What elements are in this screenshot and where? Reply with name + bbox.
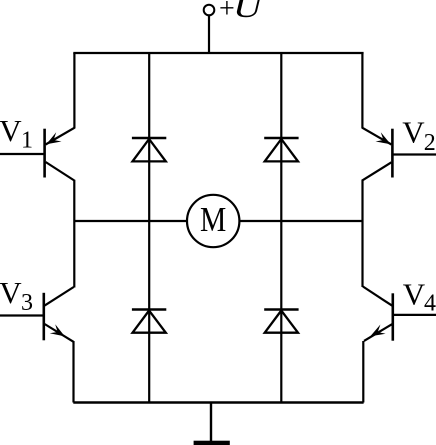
diode VD2 (top-right) (264, 138, 298, 161)
supply terminal circle (204, 5, 215, 16)
label V2 (402, 115, 436, 156)
svg-text:V: V (0, 275, 22, 310)
svg-text:V: V (0, 113, 22, 148)
label V1 (0, 113, 33, 154)
wire: bottom rail (73, 401, 363, 404)
svg-text:1: 1 (21, 128, 33, 154)
svg-text:3: 3 (21, 290, 33, 316)
wire: right inner vertical (diode branch) (280, 53, 282, 403)
wire: middle rail left of motor (74, 220, 188, 222)
diode VD3 (bottom-left) (132, 310, 166, 333)
transistor V3 (NPN, bottom-left) (0, 287, 74, 342)
label V3 (0, 275, 33, 316)
diode VD1 (top-left) (132, 138, 166, 161)
svg-text:V: V (403, 277, 426, 312)
svg-text:2: 2 (424, 130, 436, 156)
label V4 (403, 277, 436, 317)
wire: middle rail right of motor (239, 220, 363, 222)
ground (194, 441, 230, 445)
wire: ground stub (210, 403, 212, 442)
transistor V2 (PNP, top-right) (362, 128, 436, 181)
wire: left outer vertical, V3 emitter to bottom rail (72, 341, 74, 403)
transistor V1 (PNP, top-left) (0, 128, 74, 181)
svg-text:4: 4 (424, 291, 436, 317)
wire: right outer vertical, V2 collector to V4 collector (361, 180, 363, 288)
svg-text:M: M (200, 201, 226, 240)
wire: left outer vertical, V1 emitter feed (73, 53, 75, 129)
transistor V4 (NPN, bottom-right) (363, 287, 436, 341)
diode VD4 (bottom-right) (264, 310, 298, 333)
wire: right outer vertical, V2 emitter feed (361, 53, 363, 129)
motor M (187, 195, 239, 247)
wire: left outer vertical, V1 collector to V3 collector (73, 180, 75, 288)
wire: top rail (73, 52, 363, 54)
svg-text:U: U (233, 0, 264, 23)
svg-text:V: V (402, 115, 425, 150)
wire: left inner vertical (diode branch) (148, 53, 150, 403)
wire: right outer vertical, V4 emitter to bottom rail (362, 341, 364, 403)
wire: terminal stub to top rail (208, 15, 210, 54)
label +U (219, 0, 264, 25)
